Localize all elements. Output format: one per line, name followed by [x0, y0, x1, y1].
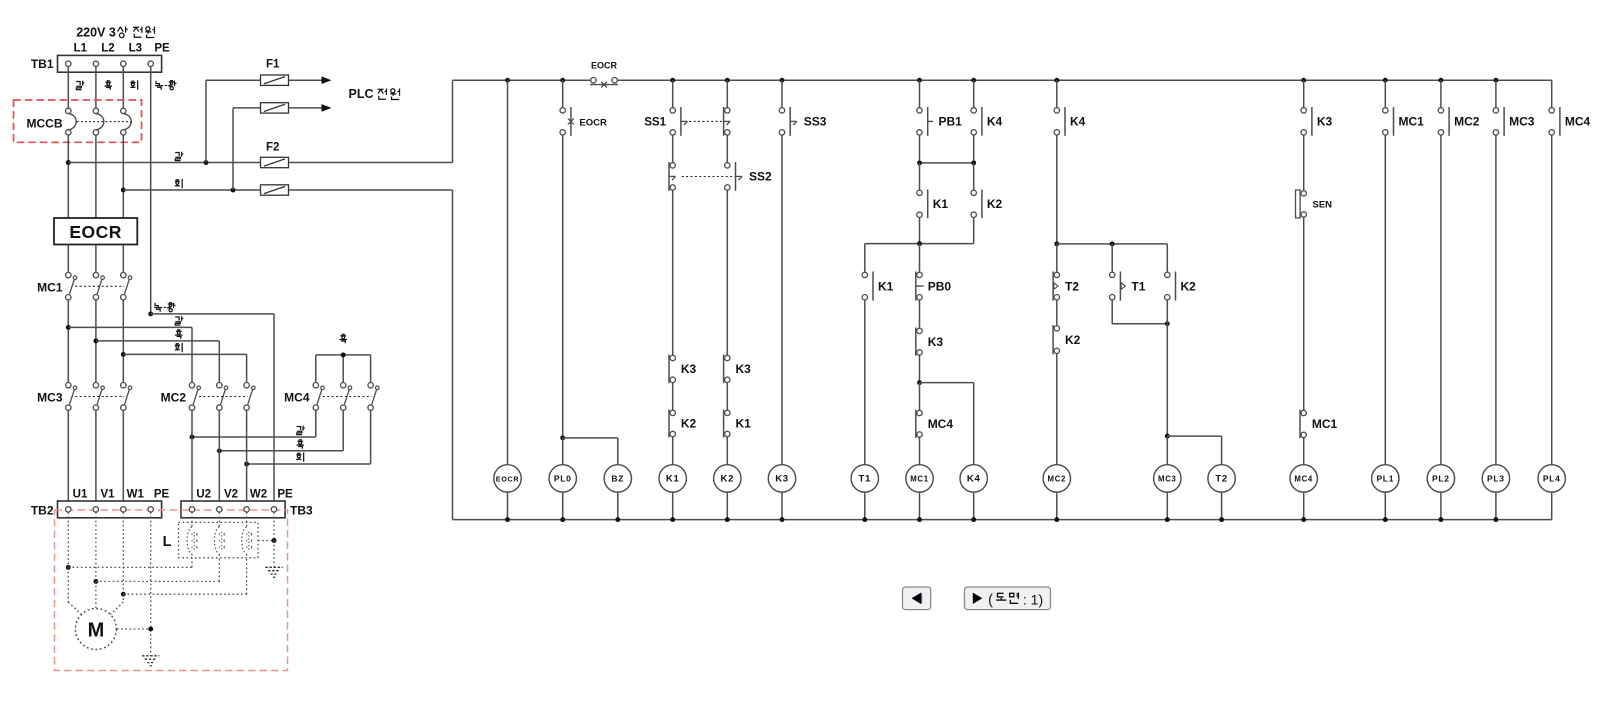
node hoe tap to MC2: [121, 352, 126, 357]
contact MC1 NO: [1301, 410, 1306, 415]
ground symbol TB3 PE: [265, 566, 282, 568]
timed contact T2 NC: [1054, 272, 1059, 277]
svg-text:K4: K4: [967, 474, 981, 485]
wire F1b branch riser: [232, 108, 234, 190]
node T1 K2 join: [1165, 321, 1170, 326]
svg-text:F1: F1: [266, 59, 280, 71]
contact K2 NC b: [1054, 326, 1059, 331]
contactor MC4 pole 2: [341, 383, 346, 388]
node bottom rail MC4: [1301, 517, 1306, 522]
node seal-in: [917, 241, 922, 246]
wire K4b down to branch node: [1056, 135, 1058, 244]
contact MC4 NC: [917, 410, 922, 415]
wire F1 branch riser: [205, 80, 207, 162]
svg-text:EOCR: EOCR: [591, 61, 618, 71]
wire MC3 contact to PL3: [1495, 135, 1497, 465]
contact K1 NO: [917, 190, 922, 195]
label hoe: [296, 453, 303, 462]
wire W1 junction to motor: [122, 594, 124, 602]
wire rail to MC4 contact: [1551, 80, 1553, 110]
contactor MC2 interlock dotted link: [199, 396, 248, 398]
label heuk: [175, 330, 183, 339]
contactor coil MC4: [1290, 465, 1317, 492]
svg-text:SS3: SS3: [804, 115, 827, 129]
svg-text:T1: T1: [1131, 279, 1145, 293]
svg-text:K1: K1: [736, 417, 752, 431]
svg-text:K3: K3: [681, 362, 697, 376]
wire L2 EOCR to MC1: [95, 245, 97, 273]
node bottom rail PL1: [1383, 517, 1388, 522]
wire K1 coil to bottom rail: [672, 492, 674, 519]
contactor MC2 pole 3: [244, 383, 249, 388]
MCCB interlock dotted link: [77, 121, 132, 123]
contactor coil MC3: [1154, 465, 1181, 492]
wire L1 MC3 to TB2: [67, 410, 69, 506]
svg-text:PL0: PL0: [554, 474, 572, 484]
node bottom rail K1: [670, 517, 675, 522]
svg-text:V2: V2: [224, 489, 238, 501]
wire MC1 coil to bottom rail: [919, 492, 921, 519]
lamp PL2: [1427, 465, 1454, 492]
contactor MC3 pole 3: [121, 383, 126, 388]
wire rail to K3 contact: [1303, 80, 1305, 110]
wire rail to SS1a: [672, 80, 674, 110]
wire split to PL0: [562, 438, 564, 465]
wire color label hoe gray L3: [130, 81, 137, 90]
contact MC3 NO aux: [1493, 108, 1498, 113]
fuse F2b on hoe feed: [261, 185, 289, 195]
svg-text:MC1: MC1: [37, 280, 63, 294]
wire K3 to K1 contact: [726, 383, 728, 413]
contact K3 NO: [917, 328, 922, 333]
wire EOCR contact down: [562, 135, 564, 438]
wire hoe to MC2 pole3: [123, 353, 246, 355]
wire PB0 to K3 contact: [919, 300, 921, 331]
node top rail EOCR contact branch: [560, 78, 565, 83]
wire T2 coil to bottom rail: [1221, 492, 1223, 519]
wire rail to PB1: [919, 80, 921, 110]
wire rail to K4 contact: [973, 80, 975, 110]
nav button previous: [903, 587, 931, 610]
selector switch SS3: [779, 108, 784, 113]
wire V1 down: [95, 512, 97, 581]
node MC2 branch: [1054, 241, 1059, 246]
wire T1 coil to bottom rail: [864, 492, 866, 519]
svg-text:L3: L3: [129, 43, 142, 55]
svg-text:220V 3: 220V 3: [76, 26, 116, 40]
relay coil K2: [714, 465, 741, 492]
MCCB pole 2: [93, 108, 98, 113]
wire L3 TB1 to MCCB: [122, 67, 124, 109]
wire K4 coil to bottom rail: [973, 492, 975, 519]
wire T2 to K2 contact: [1056, 300, 1058, 328]
node top rail PL3 branch: [1493, 78, 1498, 83]
terminal block TB3: [181, 501, 285, 518]
coil EOCR: [494, 465, 521, 492]
wire PB1 down to parallel node: [919, 135, 921, 163]
node top rail K4 branch: [971, 78, 976, 83]
wire rail to K4 contact b: [1056, 80, 1058, 110]
wire L3 MC1 to MC3: [122, 300, 124, 382]
wire MC2 pole1 to TB3 U2: [191, 410, 193, 506]
node bottom rail T1: [862, 517, 867, 522]
svg-text:W2: W2: [250, 489, 267, 501]
wire W1 to reactor W2: [123, 593, 246, 595]
svg-text:K3: K3: [736, 362, 752, 376]
svg-text:K2: K2: [987, 197, 1003, 211]
selector switch SS2 contact b: [725, 163, 730, 168]
timer coil T1: [851, 465, 878, 492]
wire MC4 coil to bottom rail: [1303, 492, 1305, 519]
wire K3 coil to bottom rail: [781, 492, 783, 519]
wire branch to T1 contact: [1111, 244, 1113, 275]
wire SS3 to K3 coil: [781, 135, 783, 465]
relay coil K4: [960, 465, 987, 492]
wire T1 contact down: [1111, 300, 1113, 324]
wire rail to SS1b: [726, 80, 728, 110]
label gal: [175, 316, 183, 325]
wire node to K1 contact: [919, 163, 921, 193]
node bottom rail T2: [1219, 517, 1224, 522]
wire MC2 branch to T2 contact: [1056, 244, 1058, 275]
reactor L dotted box: [179, 522, 259, 557]
MCCB pole 1: [66, 108, 71, 113]
wire EOCR coil branch: [507, 80, 509, 465]
wire MC4 top bus: [316, 354, 371, 356]
wire color label heuk black L2: [104, 81, 112, 90]
node V2 junction: [217, 448, 222, 453]
svg-text:K3: K3: [928, 335, 944, 349]
wire TB2 PE down: [150, 512, 152, 655]
svg-text:K1: K1: [666, 474, 680, 485]
node heuk tap to MC2: [93, 338, 98, 343]
wire SS1a to SS2a: [672, 135, 674, 165]
label gal on control feed: [175, 152, 183, 161]
wire SS2a down to K3: [672, 190, 674, 358]
contact K2 NC: [670, 410, 675, 415]
contactor MC4 pole 3: [368, 383, 373, 388]
node top rail K1 branch: [670, 78, 675, 83]
svg-text:K2: K2: [721, 474, 735, 485]
label nok-hwang: [154, 303, 162, 312]
svg-text:TB3: TB3: [290, 504, 313, 518]
svg-text:PB1: PB1: [939, 115, 963, 129]
wire L2 TB1 to MCCB: [95, 67, 97, 109]
svg-text:SEN: SEN: [1313, 200, 1333, 211]
terminal TB1-L1: [66, 61, 71, 66]
wire branch to K4 coil: [920, 382, 974, 384]
pushbutton PB0 NC: [917, 272, 922, 277]
wire hoe feed drop to bottom rail: [452, 190, 454, 520]
wire MC4 pole1 out to node: [315, 410, 317, 437]
node PL0 BZ split: [560, 435, 565, 440]
motor M: [75, 609, 116, 650]
node gal tap on L1: [66, 160, 71, 165]
contactor MC3 interlock dotted link: [75, 396, 124, 398]
timer coil T2: [1208, 465, 1235, 492]
node bottom rail BZ: [615, 517, 620, 522]
contactor MC3 pole 2: [93, 383, 98, 388]
reactor coil phase W2: [246, 512, 248, 527]
svg-text:K4: K4: [1070, 115, 1086, 129]
wire K2 contact down: [1166, 300, 1168, 324]
node U1 motor junction: [66, 565, 71, 570]
svg-text:PE: PE: [277, 489, 293, 501]
wire U1 junction to motor: [67, 567, 69, 602]
selector switch SS1 contact b: [725, 108, 730, 113]
wire L2 MC3 to TB2: [95, 410, 97, 506]
svg-text:F2: F2: [266, 142, 279, 154]
motor section red dashed box: [55, 510, 288, 671]
node F1 branch tap: [204, 160, 209, 165]
terminal block TB2: [58, 501, 162, 518]
wire L2 MCCB to EOCR: [95, 135, 97, 218]
terminal TB2-W1: [121, 507, 126, 512]
contactor MC4 pole 1: [313, 383, 318, 388]
terminal TB3-V2: [217, 507, 222, 512]
node top rail K2 branch: [725, 78, 730, 83]
wire K1 down to seal node: [919, 218, 921, 244]
wire rail to EOCR contact: [562, 80, 564, 110]
wire color label nok-hwang green-yellow PE: [155, 81, 163, 90]
node top rail PB1 branch: [917, 78, 922, 83]
svg-text:K2: K2: [1181, 279, 1197, 293]
node bottom rail PL2: [1438, 517, 1443, 522]
wire MC2 pole3 to TB3 W2: [246, 410, 248, 506]
wire join down to T2 split: [1166, 324, 1168, 436]
contact K4 NO b: [1054, 108, 1059, 113]
contactor MC1 pole 2: [93, 272, 98, 277]
control bottom rail: [453, 519, 1552, 521]
node PB1 side: [917, 160, 922, 165]
wire seal node to PB0: [919, 244, 921, 275]
svg-text:SS1: SS1: [644, 117, 666, 129]
pushbutton PB1 NO: [917, 108, 922, 113]
svg-text:SS2: SS2: [749, 170, 772, 184]
svg-text:MC2: MC2: [1454, 115, 1480, 129]
node top rail PL2 branch: [1438, 78, 1443, 83]
svg-text:PL3: PL3: [1487, 474, 1505, 484]
node top rail K4b branch: [1054, 78, 1059, 83]
svg-text:K1: K1: [878, 279, 894, 293]
svg-text:L2: L2: [101, 43, 114, 55]
selector SS2 dotted link: [682, 176, 733, 178]
node gal tap to MC2: [66, 325, 71, 330]
wire K4 down to parallel node: [973, 135, 975, 163]
terminal TB2-PE: [148, 507, 153, 512]
wire PL4 to bottom rail: [1551, 492, 1553, 519]
svg-text:M: M: [88, 620, 105, 642]
node top rail K3 branch: [780, 78, 785, 83]
svg-text:MC2: MC2: [161, 391, 187, 405]
svg-text:V1: V1: [100, 489, 115, 501]
lamp PL3: [1482, 465, 1509, 492]
svg-text:MC1: MC1: [1399, 115, 1425, 129]
ground symbol motor PE: [142, 655, 159, 657]
wire MC1 contact to MC4 coil: [1303, 438, 1305, 465]
svg-text:MC3: MC3: [1509, 115, 1535, 129]
wire branch bus right: [1057, 243, 1168, 245]
svg-text:K3: K3: [775, 474, 789, 485]
overload relay EOCR block: [54, 218, 137, 245]
wire seal-in bus: [865, 243, 974, 245]
wire K2 coil to bottom rail: [726, 492, 728, 519]
wire K2 down to seal node: [973, 218, 975, 244]
svg-text:T1: T1: [859, 474, 872, 485]
contact MC4 NO aux: [1549, 108, 1554, 113]
wire W1 down: [122, 512, 124, 594]
wire PL0 to bottom rail: [562, 492, 564, 519]
wire split to MC3 coil: [1166, 436, 1168, 465]
wire MC2 coil to bottom rail: [1056, 492, 1058, 519]
svg-text:PE: PE: [154, 489, 170, 501]
MCCB enclosure red dashed box: [14, 100, 142, 142]
wire MC1 contact to PL1: [1384, 135, 1386, 465]
wire U1 down: [67, 512, 69, 567]
svg-text:U1: U1: [73, 489, 88, 501]
node top rail EOCR branch: [505, 78, 510, 83]
wire L1 MCCB to EOCR: [67, 135, 69, 218]
svg-text:L1: L1: [74, 43, 88, 55]
contactor MC2 pole 2: [217, 383, 222, 388]
wire reactor box to PE: [258, 540, 274, 542]
node bottom rail MC1: [917, 517, 922, 522]
wire PE junction down to ground: [273, 541, 275, 567]
wire MC4 pole3 out to node: [370, 410, 372, 464]
wire V1 junction to motor: [95, 581, 97, 608]
wire F1b output arrow to PLC: [289, 107, 323, 109]
svg-text:K3: K3: [1317, 115, 1333, 129]
contactor MC1 pole 3: [121, 272, 126, 277]
MCCB pole 3: [121, 108, 126, 113]
wire nok-hwang to TB3 PE: [151, 313, 274, 315]
node K4 coil branch: [917, 380, 922, 385]
label heuk feed for MC4: [339, 334, 347, 343]
terminal TB3-PE: [271, 507, 276, 512]
node U2 junction: [190, 435, 195, 440]
contactor coil MC1: [906, 465, 933, 492]
wire L3 MCCB to EOCR: [122, 135, 124, 218]
wire MC4 contact to PL4: [1551, 135, 1553, 465]
reactor coil phase U2: [191, 512, 193, 527]
wire rail to MC2 contact: [1440, 80, 1442, 110]
contactor MC4 interlock dotted link: [323, 396, 372, 398]
control top rail: [453, 79, 1552, 81]
wire split to BZ: [563, 437, 618, 439]
wire L2 MC1 to MC3: [95, 300, 97, 382]
wire PE down from TB1: [150, 67, 152, 314]
node hoe tap on L3: [121, 188, 126, 193]
wire node to MC4 contact: [919, 383, 921, 413]
timed contact T1 NO: [1110, 272, 1115, 277]
label heuk: [296, 440, 304, 449]
contact MC2 NO aux: [1438, 108, 1443, 113]
node bottom rail EOCR: [505, 517, 510, 522]
wire EOCR coil to bottom rail: [507, 492, 509, 519]
contact K3 NC second: [725, 355, 730, 360]
wire PL1 to bottom rail: [1384, 492, 1386, 519]
svg-text:EOCR: EOCR: [69, 222, 122, 242]
wire hoe control feed to ladder: [123, 189, 260, 191]
label hoe on control feed: [175, 179, 182, 188]
contact K2 NO c: [1165, 272, 1170, 277]
contactor MC1 pole 1: [66, 272, 71, 277]
wire PB1 K4 parallel join: [920, 162, 974, 164]
terminal TB1-PE: [148, 61, 153, 66]
wire branch to K2 contact c: [1166, 244, 1168, 275]
node bottom rail K4: [971, 517, 976, 522]
node T1 contact branch: [1110, 241, 1115, 246]
svg-text:MC2: MC2: [1048, 475, 1067, 484]
wire gal to MC2 pole1: [68, 326, 192, 328]
svg-text:MC4: MC4: [1294, 475, 1313, 484]
svg-text:T2: T2: [1065, 279, 1079, 293]
lamp PL4: [1538, 465, 1565, 492]
contact K3 NO b: [1301, 108, 1306, 113]
svg-text:T2: T2: [1215, 474, 1228, 485]
wire K1 to K2 coil: [726, 437, 728, 465]
wire K3 to SEN: [1303, 135, 1305, 193]
wire L3 EOCR to MC1: [122, 245, 124, 273]
svg-text:K2: K2: [1065, 333, 1081, 347]
svg-text:K1: K1: [933, 197, 949, 211]
node bottom rail PL3: [1493, 517, 1498, 522]
node top rail K3b branch: [1301, 78, 1306, 83]
contact MC1 NO aux: [1383, 108, 1388, 113]
wire heuk to MC2 pole2: [96, 340, 219, 342]
wire L1 EOCR to MC1: [67, 245, 69, 273]
fuse F1b second PLC fuse: [261, 103, 289, 113]
relay coil K3: [768, 465, 795, 492]
terminal TB1-L3: [121, 61, 126, 66]
svg-text:EOCR: EOCR: [496, 475, 520, 484]
wire K3 to K2: [672, 383, 674, 413]
svg-text:L: L: [163, 534, 172, 550]
svg-text:MC4: MC4: [284, 391, 310, 405]
buzzer BZ: [604, 465, 631, 492]
contactor MC1 interlock dotted link: [75, 285, 124, 287]
wire K2 to K1 coil: [672, 437, 674, 465]
node nok-hwang tap on PE: [148, 311, 153, 316]
reactor coil phase V2: [218, 512, 220, 527]
node bottom rail K2: [725, 517, 730, 522]
svg-text:PL4: PL4: [1543, 474, 1561, 484]
wire node to K2 contact: [973, 163, 975, 193]
wire K1 to T1 coil: [864, 300, 866, 465]
wire MC2 pole2 to TB3 V2: [218, 410, 220, 506]
wire gal feed riser to top rail: [452, 80, 454, 162]
wire color label gal brown L1: [76, 81, 84, 90]
svg-text:PE: PE: [154, 43, 170, 55]
selector switch SS2 contact a: [670, 163, 675, 168]
svg-text:(: (: [988, 593, 993, 609]
node W2 junction: [244, 462, 249, 467]
svg-text:: 1): : 1): [1023, 592, 1043, 608]
node top rail PL1 branch: [1383, 78, 1388, 83]
wire TB3 PE to ground: [273, 512, 275, 540]
wire motor frame to PE: [117, 628, 151, 630]
contact K4 NO: [971, 108, 976, 113]
wire L1 TB1 to MCCB: [67, 67, 69, 109]
terminal TB1-L2: [93, 61, 98, 66]
node T2 coil split: [1165, 434, 1170, 439]
wire MC4 to MC1 coil: [919, 437, 921, 464]
relay coil K1: [659, 465, 686, 492]
terminal TB3-W2: [244, 507, 249, 512]
node bottom rail MC2: [1054, 517, 1059, 522]
svg-text:MC3: MC3: [1158, 475, 1177, 484]
wire BZ to bottom rail: [617, 492, 619, 519]
